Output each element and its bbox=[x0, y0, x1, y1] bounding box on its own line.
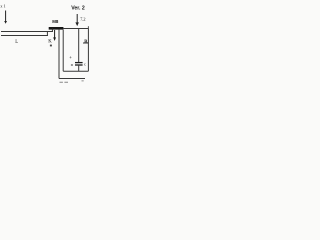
top right stub bbox=[87, 26, 89, 28]
capacitor C bottom lead bbox=[78, 65, 80, 71]
top wire right bbox=[63, 28, 88, 30]
ground wire bbox=[59, 78, 85, 80]
svg-text:+: + bbox=[69, 55, 72, 60]
bottom wire bbox=[63, 70, 88, 72]
right measure arrow bbox=[75, 14, 79, 26]
right vertical wire bbox=[87, 28, 89, 71]
svg-text:x 1: x 1 bbox=[0, 3, 5, 8]
feeder stub to bar bbox=[51, 29, 53, 32]
branch vertical wire to capacitor bbox=[78, 29, 80, 63]
junction mark below K bbox=[50, 45, 52, 47]
ground caption marks bbox=[60, 82, 63, 83]
antenna bar M8 bbox=[49, 27, 64, 30]
downlead left wire bbox=[58, 30, 60, 79]
svg-text:K: K bbox=[48, 40, 52, 45]
mid measure arrow bbox=[53, 30, 56, 41]
downlead right wire bbox=[62, 30, 64, 72]
left measure arrow bbox=[4, 11, 7, 24]
svg-text:L: L bbox=[15, 40, 18, 45]
svg-text:Ver. 2: Ver. 2 bbox=[71, 6, 85, 12]
feeder shorting vertical bbox=[46, 32, 48, 36]
svg-text:c: c bbox=[84, 61, 86, 66]
feeder lower wire bbox=[1, 35, 48, 37]
svg-text:M8: M8 bbox=[52, 19, 59, 24]
feeder upper wire bbox=[1, 31, 53, 33]
capacitor C plates bbox=[75, 62, 83, 64]
minus sign bbox=[71, 64, 73, 66]
resistor R stub wire bbox=[83, 42, 88, 44]
